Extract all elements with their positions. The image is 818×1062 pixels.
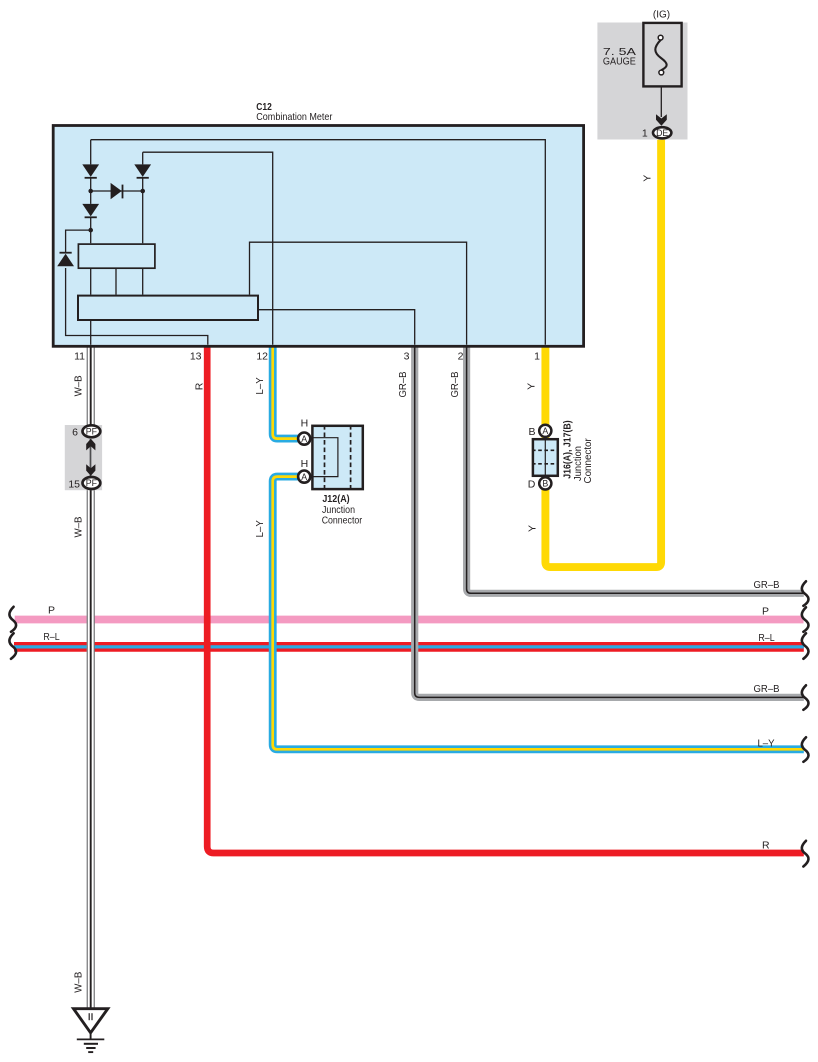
wire rect1 to rect2 stubs (91, 269, 143, 295)
fuse 7.5A GAUGE rectangle (643, 23, 681, 87)
diode D2 (134, 164, 151, 177)
svg-text:GR–B: GR–B (754, 579, 780, 591)
svg-text:A: A (301, 434, 307, 444)
svg-text:L–Y: L–Y (254, 520, 266, 537)
J12 pin A2 circle (298, 471, 310, 483)
svg-text:H: H (301, 418, 309, 430)
svg-text:GAUGE: GAUGE (603, 56, 636, 68)
svg-text:13: 13 (190, 351, 202, 363)
svg-text:W–B: W–B (72, 517, 84, 538)
break squiggle right R-L (802, 633, 809, 659)
line between PF ovals (90, 439, 92, 476)
connector PF oval top (83, 425, 101, 437)
svg-text:11: 11 (74, 351, 85, 363)
wire Y pin1 to fuse link (545, 140, 661, 567)
fuse block gray box (597, 23, 687, 140)
diode D3 horizontal (111, 183, 123, 199)
break squiggle right GR-B1 (802, 581, 809, 606)
svg-text:P: P (48, 605, 55, 617)
svg-text:H: H (301, 458, 309, 470)
svg-text:W–B: W–B (72, 972, 84, 993)
svg-text:R–L: R–L (758, 632, 774, 644)
svg-text:3: 3 (404, 351, 410, 363)
inner link line (312, 438, 338, 477)
break squiggle right L-Y (802, 737, 809, 762)
diode D1 (82, 164, 99, 177)
wire rect2 to pin11 (90, 321, 92, 345)
node dot at D2/D3 (140, 189, 145, 194)
svg-text:GR–B: GR–B (754, 683, 780, 695)
svg-text:2: 2 (458, 351, 464, 363)
arrowhead up (86, 439, 95, 451)
wire second horizontal to pin12 (143, 152, 273, 345)
svg-text:1: 1 (534, 351, 540, 363)
svg-text:Y: Y (642, 175, 654, 182)
node dot below D4 (88, 228, 93, 233)
arrowhead down to DE (656, 114, 667, 126)
svg-text:1: 1 (642, 127, 648, 139)
diode D5 pointing up (57, 253, 74, 267)
wire R pin13 (207, 346, 804, 853)
svg-text:A: A (542, 426, 548, 436)
wire diode chain left (90, 140, 92, 244)
fuse terminal circle bottom (659, 70, 664, 75)
svg-text:B: B (528, 426, 535, 438)
diode D4 (82, 204, 99, 217)
wire horizontal through D3 (91, 190, 143, 192)
ground symbol (74, 1009, 108, 1052)
break squiggle right R (802, 841, 809, 867)
fuse terminal circle top (658, 35, 663, 40)
internal block rect1 (78, 244, 154, 268)
break squiggle left P (9, 607, 16, 632)
wire GR-B pin2 (467, 346, 804, 593)
interior wires (66, 140, 546, 345)
svg-text:Connector: Connector (322, 515, 363, 527)
svg-text:A: A (301, 472, 307, 482)
svg-text:R: R (762, 840, 770, 852)
wire diode chain right (142, 152, 144, 243)
wire top horizontal to pin1 (91, 140, 546, 345)
node dot at D1/D3 (88, 189, 93, 194)
svg-text:D: D (528, 479, 536, 491)
svg-text:Y: Y (525, 383, 537, 390)
combination meter box C12 (53, 126, 583, 347)
svg-text:P: P (762, 606, 769, 618)
PF connector gray box (65, 425, 102, 490)
svg-text:(IG): (IG) (653, 9, 670, 21)
wire P band (15, 616, 804, 624)
svg-text:R: R (194, 382, 206, 390)
svg-text:W–B: W–B (72, 375, 84, 396)
junction connector J12(A) (312, 425, 363, 490)
svg-text:PF: PF (86, 427, 98, 437)
svg-text:PF: PF (86, 478, 98, 488)
wire fuse to DE (660, 87, 662, 117)
svg-text:6: 6 (72, 427, 78, 439)
svg-text:GR–B: GR–B (449, 372, 461, 398)
svg-text:J12(A): J12(A) (322, 493, 349, 505)
connector DE oval (653, 127, 671, 138)
svg-text:15: 15 (68, 478, 80, 490)
wire to pin2 (250, 242, 467, 345)
svg-text:Y: Y (526, 525, 538, 532)
wire to pin3 (259, 310, 415, 345)
svg-text:DE: DE (656, 128, 668, 138)
svg-text:L–Y: L–Y (254, 377, 266, 394)
break squiggle right GR-B2 (802, 685, 809, 710)
wire dot to D5 (66, 230, 208, 345)
junction connector J16(A) J17(B) (532, 439, 559, 476)
svg-text:B: B (542, 479, 548, 489)
J16 pin B circle (539, 477, 551, 489)
break squiggle left R-L (9, 633, 16, 659)
svg-text:12: 12 (256, 351, 268, 363)
svg-text:L–Y: L–Y (757, 738, 774, 750)
wire L-Y pin12 to J12 A1 (273, 346, 300, 439)
arrowhead down (86, 464, 95, 476)
wire R-L band (14, 642, 804, 652)
internal block rect2 (78, 296, 258, 320)
J12 pin A1 circle (298, 433, 310, 445)
wire GR-B pin3 (415, 346, 804, 697)
svg-text:GR–B: GR–B (397, 372, 409, 398)
break squiggle right P (802, 607, 809, 632)
svg-text:Connector: Connector (582, 438, 594, 484)
J16 pin A circle (539, 425, 551, 437)
wire L-Y from J12 A2 to right edge (273, 477, 804, 750)
connector PF oval bottom (83, 477, 101, 489)
fuse element S-curve (655, 40, 666, 70)
wire W-B pin11 vertical (87, 346, 94, 1009)
svg-text:Combination Meter: Combination Meter (256, 111, 333, 123)
svg-text:R–L: R–L (43, 631, 59, 643)
